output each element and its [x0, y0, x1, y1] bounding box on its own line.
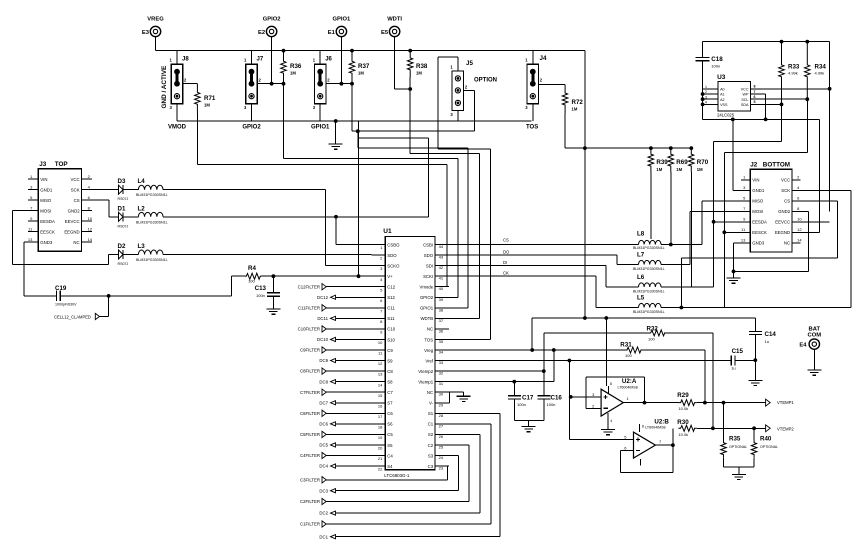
- svg-text:CK: CK: [503, 271, 509, 276]
- svg-text:VREG: VREG: [147, 17, 164, 23]
- svg-text:VMOD: VMOD: [168, 124, 187, 130]
- svg-text:SDO: SDO: [387, 253, 397, 258]
- svg-text:S10: S10: [387, 337, 395, 342]
- svg-text:C9: C9: [387, 348, 393, 353]
- svg-text:12: 12: [797, 227, 802, 232]
- svg-text:VCC: VCC: [71, 177, 80, 182]
- svg-text:J3: J3: [39, 161, 47, 168]
- svg-text:R38: R38: [416, 63, 428, 70]
- svg-text:DC3: DC3: [319, 488, 328, 493]
- svg-text:GND3: GND3: [40, 240, 53, 245]
- svg-text:TOS: TOS: [526, 124, 538, 130]
- svg-text:13: 13: [28, 237, 33, 242]
- svg-text:R36: R36: [290, 63, 302, 70]
- svg-text:10: 10: [378, 340, 383, 345]
- svg-text:100: 100: [625, 353, 632, 358]
- svg-text:4.99k: 4.99k: [788, 71, 798, 76]
- svg-text:NC: NC: [427, 390, 433, 395]
- svg-text:CS: CS: [503, 238, 509, 243]
- svg-text:1M: 1M: [416, 71, 422, 76]
- svg-text:MOSI: MOSI: [40, 209, 51, 214]
- svg-text:EESCK: EESCK: [752, 230, 767, 235]
- svg-text:L7: L7: [637, 252, 645, 259]
- svg-text:GPIO2: GPIO2: [420, 295, 434, 300]
- svg-text:VIN: VIN: [752, 178, 759, 183]
- svg-text:CSBI: CSBI: [423, 242, 433, 247]
- svg-text:GPIO2: GPIO2: [263, 17, 281, 23]
- svg-text:C11FILTER: C11FILTER: [298, 305, 320, 310]
- svg-text:C13: C13: [255, 285, 267, 292]
- svg-text:A1: A1: [720, 93, 725, 97]
- svg-text:EEVCC: EEVCC: [65, 219, 80, 224]
- svg-text:J4: J4: [540, 55, 547, 62]
- svg-text:Vmode: Vmode: [419, 285, 433, 290]
- svg-text:10.0k: 10.0k: [678, 406, 688, 411]
- svg-text:20: 20: [378, 446, 383, 451]
- svg-text:1M: 1M: [290, 71, 296, 76]
- svg-text:2: 2: [705, 90, 707, 94]
- svg-text:TOP: TOP: [55, 161, 68, 168]
- svg-text:C8: C8: [387, 369, 393, 374]
- svg-text:R35: R35: [729, 436, 741, 443]
- svg-text:NC: NC: [784, 241, 790, 246]
- svg-text:EESDA: EESDA: [752, 220, 767, 225]
- svg-text:S11: S11: [387, 316, 395, 321]
- svg-text:1u: 1u: [765, 339, 769, 344]
- svg-text:S3: S3: [428, 453, 434, 458]
- svg-text:16: 16: [378, 403, 383, 408]
- svg-text:8: 8: [754, 85, 756, 89]
- svg-text:MISO: MISO: [40, 198, 52, 203]
- svg-text:1M: 1M: [697, 167, 703, 172]
- svg-text:J7: J7: [257, 57, 264, 63]
- svg-text:Vreg: Vreg: [424, 348, 434, 353]
- svg-text:4.99k: 4.99k: [815, 71, 825, 76]
- svg-text:E1: E1: [328, 30, 336, 36]
- svg-text:C3FILTER: C3FILTER: [300, 477, 320, 482]
- svg-text:SCKO: SCKO: [387, 263, 400, 268]
- svg-text:100n: 100n: [547, 402, 556, 407]
- svg-text:14: 14: [88, 237, 93, 242]
- svg-text:R29: R29: [677, 392, 689, 399]
- svg-text:15: 15: [378, 393, 383, 398]
- svg-text:GND2: GND2: [68, 209, 81, 214]
- svg-text:6: 6: [754, 95, 756, 99]
- svg-text:R71: R71: [204, 95, 216, 102]
- svg-text:100n: 100n: [711, 64, 720, 69]
- svg-text:C12FILTER: C12FILTER: [298, 284, 320, 289]
- svg-text:1M: 1M: [358, 71, 364, 76]
- svg-text:V-: V-: [429, 401, 434, 406]
- svg-text:DC11: DC11: [317, 316, 328, 321]
- svg-text:DC2: DC2: [319, 511, 328, 516]
- svg-text:D3: D3: [118, 178, 126, 185]
- svg-text:1u: 1u: [731, 366, 735, 371]
- svg-text:S8: S8: [387, 379, 393, 384]
- svg-text:J6: J6: [325, 57, 332, 63]
- svg-text:C15: C15: [732, 348, 744, 355]
- svg-text:17: 17: [378, 414, 383, 419]
- svg-text:1M: 1M: [676, 167, 682, 172]
- svg-text:100n: 100n: [517, 402, 526, 407]
- svg-text:C6: C6: [387, 411, 393, 416]
- svg-text:NC: NC: [427, 327, 433, 332]
- svg-text:1: 1: [705, 85, 707, 89]
- svg-text:WDTB: WDTB: [420, 316, 433, 321]
- svg-text:L2: L2: [138, 205, 146, 212]
- svg-text:GPIO1: GPIO1: [333, 17, 351, 23]
- svg-text:DC5: DC5: [319, 443, 328, 448]
- svg-text:DC12: DC12: [317, 295, 329, 300]
- svg-text:U1: U1: [383, 228, 392, 235]
- svg-text:100: 100: [248, 279, 255, 284]
- svg-text:BLM31PG330SN1L: BLM31PG330SN1L: [633, 246, 665, 250]
- svg-text:RS07J: RS07J: [118, 262, 129, 266]
- svg-text:OPTIONAL: OPTIONAL: [760, 445, 778, 449]
- svg-text:S12: S12: [387, 295, 395, 300]
- svg-text:GND2: GND2: [778, 209, 791, 214]
- svg-text:DO: DO: [503, 250, 510, 255]
- svg-text:S1: S1: [428, 411, 434, 416]
- svg-text:100: 100: [648, 337, 655, 342]
- svg-text:R32: R32: [647, 326, 659, 333]
- svg-text:C2FILTER: C2FILTER: [300, 499, 320, 504]
- svg-text:24LC025: 24LC025: [717, 113, 735, 118]
- svg-text:1M: 1M: [572, 107, 578, 112]
- svg-text:E3: E3: [142, 30, 150, 36]
- svg-text:4: 4: [705, 101, 707, 105]
- svg-text:12: 12: [88, 227, 93, 232]
- svg-text:R40: R40: [760, 436, 772, 443]
- svg-text:BOTTOM: BOTTOM: [763, 162, 790, 169]
- svg-text:R37: R37: [358, 63, 370, 70]
- svg-text:GND1: GND1: [40, 188, 53, 193]
- svg-text:C3: C3: [428, 464, 434, 469]
- svg-text:VCC: VCC: [781, 178, 790, 183]
- svg-text:J5: J5: [466, 60, 473, 67]
- svg-text:Vtemp1: Vtemp1: [418, 379, 433, 384]
- svg-text:VIN: VIN: [40, 177, 47, 182]
- svg-text:18: 18: [378, 424, 383, 429]
- svg-text:BLM31PG330SN1L: BLM31PG330SN1L: [633, 267, 665, 271]
- svg-text:C4: C4: [387, 453, 393, 458]
- svg-text:C1: C1: [428, 422, 434, 427]
- svg-text:RS07J: RS07J: [118, 197, 129, 201]
- svg-text:DC8: DC8: [319, 379, 328, 384]
- svg-text:TOS: TOS: [424, 337, 433, 342]
- svg-text:VSS: VSS: [720, 103, 728, 107]
- svg-text:R33: R33: [788, 64, 800, 71]
- svg-text:S7: S7: [387, 401, 393, 406]
- svg-text:J2: J2: [750, 162, 758, 169]
- svg-text:C2: C2: [428, 443, 434, 448]
- svg-text:3: 3: [705, 95, 707, 99]
- svg-text:L4: L4: [138, 178, 146, 185]
- svg-text:U3: U3: [717, 74, 726, 81]
- svg-text:SCK: SCK: [781, 188, 790, 193]
- svg-text:8: 8: [610, 382, 612, 386]
- svg-text:E4: E4: [799, 343, 807, 349]
- svg-text:SDA: SDA: [741, 103, 749, 107]
- svg-text:4: 4: [610, 419, 612, 423]
- svg-text:EEGND: EEGND: [775, 230, 790, 235]
- svg-text:WDTI: WDTI: [387, 17, 402, 23]
- svg-text:1M: 1M: [656, 167, 662, 172]
- svg-text:DI: DI: [503, 260, 507, 265]
- svg-text:BLM31PG330SN1L: BLM31PG330SN1L: [136, 220, 168, 224]
- svg-text:DC10: DC10: [317, 337, 329, 342]
- svg-text:S2: S2: [428, 432, 434, 437]
- svg-text:L8: L8: [637, 231, 645, 238]
- svg-text:EESCK: EESCK: [40, 230, 55, 235]
- svg-text:R31: R31: [620, 342, 632, 349]
- svg-text:C19: C19: [55, 285, 67, 292]
- svg-text:V+: V+: [387, 274, 393, 279]
- svg-text:C7: C7: [387, 390, 393, 395]
- svg-text:GND1: GND1: [752, 188, 765, 193]
- svg-text:CELL12_CLAMPED: CELL12_CLAMPED: [54, 314, 91, 319]
- svg-text:R69: R69: [676, 159, 688, 166]
- svg-text:14: 14: [797, 238, 802, 243]
- svg-text:10: 10: [797, 217, 802, 222]
- svg-text:BLM31PG330SN1L: BLM31PG330SN1L: [136, 193, 168, 197]
- svg-text:L6: L6: [637, 274, 645, 281]
- svg-text:C10FILTER: C10FILTER: [298, 327, 320, 332]
- svg-text:GPIO2: GPIO2: [242, 124, 261, 130]
- svg-text:C5: C5: [387, 432, 393, 437]
- svg-text:GND3: GND3: [752, 241, 765, 246]
- svg-text:100n: 100n: [256, 293, 265, 298]
- svg-text:10: 10: [88, 216, 93, 221]
- svg-text:LT6004IMS8: LT6004IMS8: [618, 386, 638, 390]
- svg-text:S5: S5: [387, 443, 393, 448]
- svg-text:J8: J8: [182, 57, 189, 63]
- svg-text:7: 7: [754, 90, 756, 94]
- svg-text:Vtemp2: Vtemp2: [418, 369, 433, 374]
- svg-text:C16: C16: [551, 395, 563, 402]
- svg-text:C1FILTER: C1FILTER: [300, 522, 320, 527]
- svg-text:CS: CS: [784, 199, 790, 204]
- svg-text:R4: R4: [248, 265, 256, 272]
- svg-text:S4: S4: [387, 464, 393, 469]
- svg-text:C6FILTER: C6FILTER: [300, 411, 320, 416]
- svg-text:L3: L3: [138, 243, 146, 250]
- svg-text:BLM31PG330SN1L: BLM31PG330SN1L: [633, 290, 665, 294]
- svg-text:C17: C17: [522, 395, 534, 402]
- svg-text:LTC6803G-1: LTC6803G-1: [384, 473, 410, 478]
- svg-text:SCL: SCL: [741, 98, 748, 102]
- svg-text:C4FILTER: C4FILTER: [300, 453, 320, 458]
- svg-text:SDI: SDI: [426, 263, 433, 268]
- svg-text:MOSI: MOSI: [752, 209, 763, 214]
- svg-text:D2: D2: [118, 243, 126, 250]
- svg-text:DC6: DC6: [319, 421, 328, 426]
- svg-text:13: 13: [741, 238, 746, 243]
- svg-text:C12: C12: [387, 285, 395, 290]
- svg-text:1M: 1M: [204, 103, 210, 108]
- svg-text:14: 14: [378, 382, 383, 387]
- svg-text:WP: WP: [743, 93, 749, 97]
- svg-text:C14: C14: [765, 331, 777, 338]
- svg-text:VTEMP2: VTEMP2: [777, 427, 794, 432]
- svg-text:EEVCC: EEVCC: [775, 220, 790, 225]
- svg-text:OPTIONAL: OPTIONAL: [729, 445, 747, 449]
- svg-text:CS: CS: [74, 198, 80, 203]
- svg-text:C9FILTER: C9FILTER: [300, 348, 320, 353]
- svg-text:DC9: DC9: [319, 358, 328, 363]
- svg-text:A2: A2: [720, 98, 725, 102]
- svg-text:OPTION: OPTION: [474, 78, 497, 84]
- svg-text:C5FILTER: C5FILTER: [300, 432, 320, 437]
- svg-text:S6: S6: [387, 422, 393, 427]
- svg-text:EESDA: EESDA: [40, 219, 55, 224]
- svg-text:L5: L5: [637, 295, 645, 302]
- svg-text:NC: NC: [73, 240, 79, 245]
- svg-text:Vref: Vref: [425, 358, 434, 363]
- svg-text:U2:A: U2:A: [622, 378, 637, 385]
- svg-text:VTEMP1: VTEMP1: [777, 400, 794, 405]
- svg-text:DC7: DC7: [319, 400, 328, 405]
- svg-text:LT6004IMS8: LT6004IMS8: [645, 426, 665, 430]
- svg-text:SDO: SDO: [424, 253, 434, 258]
- svg-text:RS07J: RS07J: [118, 224, 129, 228]
- svg-text:CSBO: CSBO: [387, 242, 400, 247]
- svg-text:GPIO1: GPIO1: [420, 306, 434, 311]
- svg-text:1000pF/630V: 1000pF/630V: [55, 303, 77, 307]
- svg-text:MISO: MISO: [752, 199, 764, 204]
- svg-text:12: 12: [378, 361, 383, 366]
- svg-text:BLM31PG330SN1L: BLM31PG330SN1L: [633, 310, 665, 314]
- svg-text:R70: R70: [697, 159, 709, 166]
- svg-text:8: 8: [642, 425, 644, 429]
- svg-text:C8FILTER: C8FILTER: [300, 369, 320, 374]
- svg-text:E5: E5: [381, 30, 389, 36]
- svg-text:C11: C11: [387, 306, 395, 311]
- svg-text:S9: S9: [387, 358, 393, 363]
- svg-text:R39: R39: [656, 159, 668, 166]
- svg-text:COM: COM: [808, 333, 822, 339]
- svg-text:DC4: DC4: [319, 464, 328, 469]
- svg-text:D1: D1: [118, 205, 126, 212]
- svg-text:19: 19: [378, 435, 383, 440]
- svg-text:22: 22: [378, 467, 383, 472]
- svg-text:21: 21: [378, 456, 383, 461]
- svg-text:SCKI: SCKI: [423, 274, 433, 279]
- svg-text:SCK: SCK: [71, 188, 80, 193]
- svg-text:U2:B: U2:B: [654, 419, 669, 426]
- svg-text:R34: R34: [815, 64, 827, 71]
- svg-text:E2: E2: [258, 30, 265, 36]
- svg-text:EEGND: EEGND: [64, 230, 79, 235]
- svg-text:5: 5: [754, 100, 756, 104]
- svg-text:C7FILTER: C7FILTER: [300, 390, 320, 395]
- svg-text:C18: C18: [711, 56, 723, 63]
- svg-text:GND / ACTIVE: GND / ACTIVE: [161, 65, 168, 108]
- svg-text:R30: R30: [677, 419, 689, 426]
- svg-text:10.0k: 10.0k: [678, 432, 688, 437]
- svg-text:R72: R72: [572, 99, 584, 106]
- svg-text:C10: C10: [387, 327, 395, 332]
- svg-text:DC1: DC1: [319, 534, 328, 539]
- svg-text:13: 13: [378, 372, 383, 377]
- svg-text:A0: A0: [720, 87, 725, 91]
- svg-text:GPIO1: GPIO1: [311, 124, 330, 130]
- svg-text:VCC: VCC: [741, 87, 749, 91]
- svg-text:BLM31PG330SN1L: BLM31PG330SN1L: [136, 258, 168, 262]
